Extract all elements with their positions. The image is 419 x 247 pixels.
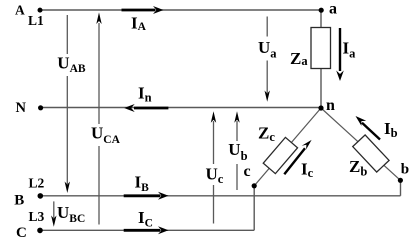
voltage arrow U_b [234,111,239,190]
wire neutral N line [41,107,321,109]
node N terminal dot [38,105,43,110]
current arrow I_B [124,192,169,200]
current arrow I_C [124,226,169,234]
impedance Zc [263,137,297,173]
svg-text:L2: L2 [29,176,45,191]
node b junction dot [398,178,403,183]
svg-text:a: a [329,0,337,17]
node A terminal dot [38,8,43,13]
current arrow I_c [284,140,311,174]
svg-text:L1: L1 [28,13,44,28]
wire riser from C line to node c [253,186,255,230]
svg-text:C: C [16,225,27,241]
wire from node a into Za [320,10,322,28]
voltage arrow U_c [211,111,216,223]
svg-text:c: c [244,163,251,180]
svg-text:B: B [14,192,24,208]
node a junction dot [319,8,324,13]
node n junction dot [318,105,323,110]
current arrow I_a [336,28,344,81]
voltage arrow U_AB [65,15,70,193]
impedance Za [311,28,331,69]
svg-text:N: N [16,100,27,116]
node c junction dot [252,183,257,188]
current arrow I_A [122,6,164,14]
current arrow I_b [356,116,381,140]
svg-text:n: n [326,97,335,114]
voltage arrow U_BC [51,201,56,226]
current arrow I_n [124,104,168,112]
svg-text:A: A [15,2,25,17]
svg-text:b: b [401,162,409,178]
wire riser from B line to node b [400,180,402,196]
svg-text:L3: L3 [29,209,45,224]
wire phase B line L2 [40,195,401,197]
wire branch n to b [321,108,400,180]
voltage arrow U_CA [96,12,101,224]
node C terminal dot [37,228,43,234]
wire phase A line L1 [41,9,322,11]
node B terminal dot [38,193,44,199]
wire phase C line L3 [40,229,254,231]
impedance Zb [353,135,389,172]
voltage arrow U_a [265,17,270,102]
wire branch n to c [254,108,321,186]
wire from Za to node n [320,68,322,108]
